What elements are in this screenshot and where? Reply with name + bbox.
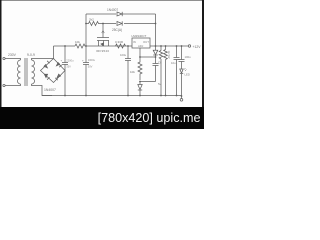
svg-text:+: + bbox=[61, 59, 63, 63]
resistor R2 2k2 bbox=[85, 18, 100, 26]
svg-text:0.33R: 0.33R bbox=[115, 40, 124, 44]
svg-text:IN: IN bbox=[133, 40, 136, 44]
svg-text:25C(A): 25C(A) bbox=[112, 28, 122, 32]
resistor R6 10k bbox=[164, 46, 171, 96]
wire diode rails down to output rail bbox=[155, 14, 157, 46]
resistor R4 240 bbox=[130, 57, 142, 80]
svg-text:100u: 100u bbox=[120, 53, 127, 57]
svg-text:9-0-9: 9-0-9 bbox=[27, 53, 35, 57]
wire R4 bottom to C5 bottom bbox=[139, 81, 161, 86]
svg-text:C8: C8 bbox=[158, 61, 162, 65]
wire regulator output rail bbox=[150, 45, 188, 47]
capacitor C5 bbox=[153, 63, 159, 82]
svg-text:1000u: 1000u bbox=[88, 58, 96, 62]
svg-text:OUT: OUT bbox=[143, 40, 149, 44]
AC input terminal J1 bbox=[3, 53, 17, 60]
resistor R1 10k bbox=[75, 40, 86, 48]
svg-text:IRF9540: IRF9540 bbox=[96, 49, 109, 53]
AC input terminal J2 bbox=[3, 84, 5, 86]
svg-text:2200u: 2200u bbox=[66, 59, 74, 63]
capacitor C7 output bbox=[179, 46, 192, 69]
transformer T1 core bbox=[25, 58, 27, 86]
transformer T1 primary bbox=[18, 59, 21, 86]
wire ADJ net bbox=[139, 48, 156, 58]
svg-text:+: + bbox=[82, 59, 84, 63]
wire secondary bottom to ground rail bbox=[34, 86, 52, 96]
transistor Q1 MOSFET bbox=[96, 38, 109, 54]
wire bbox=[5, 85, 18, 87]
wire secondary top to bridge bbox=[34, 58, 54, 60]
svg-text:LED: LED bbox=[185, 73, 190, 77]
op-amp U1 regulator LM317 bbox=[132, 34, 151, 48]
LED D5 bbox=[180, 68, 190, 96]
zener D3 bbox=[153, 46, 158, 63]
svg-text:[780x420] upic.me: [780x420] upic.me bbox=[98, 111, 201, 125]
bridge rectifier BR1 1N4007 bbox=[41, 59, 66, 93]
svg-text:1k/1W: 1k/1W bbox=[167, 51, 171, 59]
wire main positive rail bbox=[54, 45, 76, 47]
transformer T1 secondary bbox=[27, 53, 35, 86]
capacitor C6 bbox=[171, 46, 180, 96]
svg-text:ADJ: ADJ bbox=[138, 44, 144, 48]
output terminal - OUT bbox=[180, 95, 183, 101]
svg-text:35V: 35V bbox=[66, 65, 71, 69]
output terminal + OUT bbox=[188, 45, 201, 49]
wire bus from rails down to rail (node A riser) bbox=[85, 14, 87, 46]
svg-text:230V: 230V bbox=[8, 53, 17, 57]
diode D1 1N4007 bbox=[107, 8, 124, 16]
svg-text:+12V: +12V bbox=[193, 45, 202, 49]
wire ground rail bbox=[42, 95, 182, 97]
svg-text:LM2940CT: LM2940CT bbox=[132, 34, 147, 38]
svg-text:10k: 10k bbox=[75, 40, 80, 44]
svg-text:10k: 10k bbox=[130, 70, 135, 74]
svg-text:100u: 100u bbox=[185, 55, 192, 59]
resistor VR1 preset bbox=[158, 46, 163, 96]
wire rail junction node A bbox=[85, 45, 132, 47]
resistor R3 0.33 bbox=[115, 40, 126, 48]
diode D2 bbox=[112, 21, 122, 32]
svg-text:1N4007: 1N4007 bbox=[44, 88, 56, 92]
svg-text:10u: 10u bbox=[171, 61, 176, 65]
capacitor C2 100u bbox=[82, 46, 96, 96]
wire gate net from rail2 down bbox=[102, 24, 104, 38]
svg-text:50V: 50V bbox=[88, 65, 93, 69]
wire bridge + up to main rail bbox=[53, 46, 55, 59]
capacitor C1 2200u bbox=[61, 46, 75, 96]
svg-text:1N4007: 1N4007 bbox=[107, 8, 118, 12]
capacitor C4 100u bbox=[120, 46, 131, 96]
wire bbox=[5, 58, 18, 60]
wire second diode rail bbox=[100, 23, 156, 25]
wire top diode rail bbox=[86, 13, 156, 15]
diode D4 bbox=[138, 82, 142, 96]
svg-text:2k2: 2k2 bbox=[89, 18, 94, 22]
